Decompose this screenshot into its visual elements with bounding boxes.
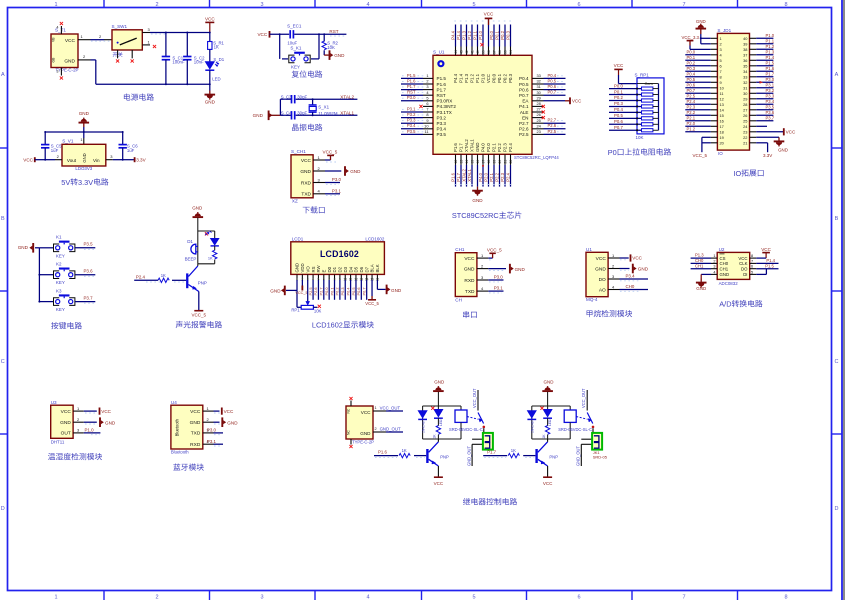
svg-text:LCD1602: LCD1602 bbox=[320, 249, 359, 259]
svg-text:P0.1: P0.1 bbox=[687, 55, 696, 60]
svg-text:CH0: CH0 bbox=[626, 284, 635, 289]
svg-text:VCC: VCC bbox=[301, 158, 312, 164]
svg-text:35: 35 bbox=[743, 63, 747, 68]
svg-text:11: 11 bbox=[424, 129, 428, 134]
svg-text:P3.5: P3.5 bbox=[437, 132, 447, 137]
svg-text:P0.5: P0.5 bbox=[614, 113, 623, 118]
svg-text:29: 29 bbox=[537, 95, 541, 100]
svg-text:VCC: VCC bbox=[738, 256, 747, 261]
svg-text:GND: GND bbox=[205, 100, 216, 105]
svg-text:VCC: VCC bbox=[464, 256, 475, 262]
svg-text:P2.2: P2.2 bbox=[494, 172, 499, 181]
svg-text:CH1: CH1 bbox=[695, 263, 704, 268]
svg-text:P1.6: P1.6 bbox=[407, 78, 416, 83]
svg-text:9: 9 bbox=[720, 80, 722, 85]
svg-text:DI: DI bbox=[743, 272, 747, 277]
svg-text:S_V1: S_V1 bbox=[62, 139, 74, 144]
svg-text:P1.6: P1.6 bbox=[378, 450, 387, 455]
svg-text:P1.1: P1.1 bbox=[472, 30, 477, 39]
svg-text:P2.5: P2.5 bbox=[687, 94, 696, 99]
svg-text:8: 8 bbox=[784, 595, 787, 600]
svg-text:OUT: OUT bbox=[61, 431, 71, 437]
svg-text:P2.3: P2.3 bbox=[687, 105, 696, 110]
svg-text:D1: D1 bbox=[187, 239, 193, 244]
svg-text:7: 7 bbox=[720, 69, 722, 74]
svg-text:VCC_5: VCC_5 bbox=[487, 248, 502, 253]
svg-text:A/D: A/D bbox=[719, 300, 731, 309]
svg-text:P1.0: P1.0 bbox=[766, 33, 775, 38]
svg-text:P0.5: P0.5 bbox=[519, 82, 529, 87]
svg-text:VCC_5: VCC_5 bbox=[295, 291, 307, 295]
svg-text:A: A bbox=[1, 72, 5, 78]
svg-text:10K: 10K bbox=[327, 45, 335, 50]
svg-text:P0.6: P0.6 bbox=[519, 87, 529, 92]
svg-text:P3.1: P3.1 bbox=[494, 286, 504, 291]
svg-text:25: 25 bbox=[743, 118, 747, 123]
svg-text:VCC: VCC bbox=[61, 409, 72, 415]
svg-text:P1.6: P1.6 bbox=[450, 172, 455, 181]
svg-text:GND_OUT: GND_OUT bbox=[380, 427, 401, 432]
svg-text:VCC_3.3: VCC_3.3 bbox=[682, 35, 700, 40]
svg-text:VCC: VCC bbox=[786, 130, 796, 135]
svg-text:GND: GND bbox=[18, 245, 29, 250]
svg-text:D2: D2 bbox=[338, 266, 343, 272]
svg-text:4: 4 bbox=[56, 26, 58, 30]
svg-text:NC: NC bbox=[347, 408, 351, 413]
svg-text:1: 1 bbox=[426, 73, 428, 78]
svg-text:22: 22 bbox=[743, 135, 747, 140]
svg-text:VCC: VCC bbox=[596, 256, 607, 262]
svg-text:P0.2: P0.2 bbox=[503, 73, 508, 82]
svg-text:7: 7 bbox=[751, 259, 753, 263]
svg-text:PNP: PNP bbox=[549, 454, 558, 459]
svg-text:3: 3 bbox=[260, 2, 263, 8]
svg-text:RXD: RXD bbox=[464, 278, 475, 284]
svg-text:18: 18 bbox=[487, 160, 491, 164]
svg-text:6: 6 bbox=[751, 265, 753, 269]
svg-text:19: 19 bbox=[492, 160, 496, 164]
svg-text:RXD: RXD bbox=[190, 442, 201, 448]
svg-text:P3.5: P3.5 bbox=[407, 129, 416, 134]
svg-text:P0.3: P0.3 bbox=[340, 287, 345, 295]
svg-text:PNP: PNP bbox=[198, 281, 207, 286]
svg-text:P0.2: P0.2 bbox=[335, 287, 340, 295]
svg-text:P3.2: P3.2 bbox=[407, 112, 416, 117]
svg-text:S_X1: S_X1 bbox=[318, 104, 329, 109]
svg-text:GND: GND bbox=[595, 266, 606, 272]
svg-text:1: 1 bbox=[713, 254, 715, 258]
svg-text:KEY: KEY bbox=[56, 253, 65, 258]
svg-text:VCC_OUT: VCC_OUT bbox=[581, 388, 586, 408]
svg-text:GND: GND bbox=[696, 19, 706, 24]
svg-text:P2.2: P2.2 bbox=[497, 143, 502, 152]
svg-text:33: 33 bbox=[743, 74, 747, 79]
svg-text:39: 39 bbox=[743, 41, 747, 46]
svg-text:GND: GND bbox=[64, 59, 75, 65]
svg-text:2: 2 bbox=[713, 259, 715, 263]
svg-text:3: 3 bbox=[713, 265, 715, 269]
svg-text:P0.7: P0.7 bbox=[519, 93, 529, 98]
svg-text:P0.4: P0.4 bbox=[519, 76, 529, 81]
svg-text:P3.1: P3.1 bbox=[766, 83, 775, 88]
svg-text:6: 6 bbox=[426, 101, 428, 106]
svg-text:D0: D0 bbox=[327, 266, 332, 272]
svg-text:P1.7: P1.7 bbox=[437, 87, 447, 92]
svg-text:GND: GND bbox=[638, 267, 649, 272]
svg-text:P0.0: P0.0 bbox=[614, 83, 623, 88]
svg-text:GND: GND bbox=[190, 420, 201, 426]
svg-text:20: 20 bbox=[498, 160, 502, 164]
svg-text:VCC: VCC bbox=[632, 256, 642, 261]
svg-text:16: 16 bbox=[720, 118, 724, 123]
svg-text:P4.0: P4.0 bbox=[481, 143, 486, 152]
svg-text:GND: GND bbox=[79, 111, 90, 116]
svg-text:P1.4: P1.4 bbox=[459, 73, 464, 82]
svg-text:P0.3: P0.3 bbox=[508, 73, 513, 82]
svg-text:S_JD1: S_JD1 bbox=[717, 28, 731, 33]
svg-text:VCC: VCC bbox=[190, 409, 201, 415]
svg-text:P0.7: P0.7 bbox=[614, 125, 623, 130]
svg-text:DHT11: DHT11 bbox=[51, 439, 65, 444]
svg-text:25: 25 bbox=[537, 118, 541, 123]
svg-text:P2.4: P2.4 bbox=[136, 275, 146, 280]
svg-text:P0.4: P0.4 bbox=[548, 73, 557, 78]
svg-text:VB: VB bbox=[52, 37, 56, 42]
svg-text:D7: D7 bbox=[364, 266, 369, 272]
svg-text:P1.3: P1.3 bbox=[461, 30, 466, 39]
svg-text:32: 32 bbox=[537, 79, 541, 84]
svg-text:P3.1: P3.1 bbox=[207, 439, 217, 444]
svg-text:P2.1: P2.1 bbox=[687, 116, 696, 121]
svg-text:P0: P0 bbox=[608, 148, 617, 157]
svg-text:S_K1: S_K1 bbox=[290, 45, 302, 50]
svg-text:8: 8 bbox=[426, 112, 428, 117]
svg-text:P0.6: P0.6 bbox=[687, 83, 696, 88]
svg-text:5V: 5V bbox=[61, 178, 70, 187]
svg-text:GND: GND bbox=[270, 289, 281, 294]
svg-text:P1.2: P1.2 bbox=[687, 127, 696, 132]
svg-text:Bluetooth: Bluetooth bbox=[171, 450, 189, 455]
svg-text:P0.6: P0.6 bbox=[356, 287, 361, 295]
svg-text:P2.7: P2.7 bbox=[319, 287, 324, 295]
svg-text:44: 44 bbox=[454, 50, 458, 54]
svg-text:P3.3: P3.3 bbox=[766, 94, 775, 99]
svg-text:5: 5 bbox=[472, 2, 475, 8]
svg-text:1K: 1K bbox=[511, 448, 516, 453]
svg-text:1K: 1K bbox=[208, 256, 213, 261]
svg-text:P1.7: P1.7 bbox=[456, 172, 461, 181]
svg-text:28: 28 bbox=[537, 101, 541, 106]
svg-text:K1: K1 bbox=[56, 235, 62, 240]
svg-text:VCC_5: VCC_5 bbox=[192, 313, 207, 318]
svg-text:GND: GND bbox=[475, 142, 480, 152]
svg-text:B: B bbox=[835, 216, 839, 222]
svg-text:GND: GND bbox=[464, 266, 475, 272]
svg-text:1uF: 1uF bbox=[51, 148, 59, 153]
svg-text:P4.0: P4.0 bbox=[478, 172, 483, 181]
svg-text:P1.7: P1.7 bbox=[766, 72, 775, 77]
svg-text:P2.3: P2.3 bbox=[500, 172, 505, 181]
svg-text:XTAL2: XTAL2 bbox=[340, 94, 354, 99]
svg-text:K3: K3 bbox=[56, 288, 62, 293]
svg-text:2: 2 bbox=[720, 41, 722, 46]
svg-text:STC89C52RC: STC89C52RC bbox=[452, 211, 500, 220]
svg-text:27: 27 bbox=[537, 107, 541, 112]
svg-text:VDD: VDD bbox=[300, 263, 305, 272]
svg-text:D6: D6 bbox=[359, 266, 364, 272]
svg-text:32: 32 bbox=[743, 80, 747, 85]
svg-text:VCC: VCC bbox=[361, 410, 371, 415]
svg-text:P1.1: P1.1 bbox=[475, 73, 480, 82]
svg-text:VCC: VCC bbox=[761, 247, 771, 252]
svg-text:11: 11 bbox=[720, 91, 724, 96]
svg-text:P2.7: P2.7 bbox=[548, 118, 557, 123]
svg-text:P2.0: P2.0 bbox=[483, 172, 488, 181]
svg-text:LCD1: LCD1 bbox=[292, 236, 304, 241]
svg-text:GND: GND bbox=[334, 53, 345, 58]
svg-text:VCC: VCC bbox=[434, 481, 444, 486]
svg-text:3.3V: 3.3V bbox=[78, 178, 93, 187]
svg-text:D1: D1 bbox=[332, 266, 337, 272]
svg-text:7: 7 bbox=[682, 2, 685, 8]
svg-text:P3.2: P3.2 bbox=[766, 88, 775, 93]
svg-text:P1.0: P1.0 bbox=[481, 73, 486, 82]
svg-text:P1.5: P1.5 bbox=[437, 76, 447, 81]
svg-text:3: 3 bbox=[720, 47, 722, 52]
svg-text:S_C3: S_C3 bbox=[281, 94, 292, 99]
svg-text:GND: GND bbox=[472, 198, 483, 203]
svg-text:P0.0: P0.0 bbox=[492, 73, 497, 82]
svg-text:GND: GND bbox=[60, 420, 71, 426]
svg-text:P2.1: P2.1 bbox=[492, 143, 497, 152]
svg-text:18: 18 bbox=[720, 129, 724, 134]
svg-text:LED1: LED1 bbox=[548, 418, 552, 426]
svg-text:P3.6: P3.6 bbox=[766, 110, 775, 115]
svg-text:GND_OUT: GND_OUT bbox=[467, 445, 472, 466]
svg-text:GND: GND bbox=[360, 431, 371, 436]
svg-text:23: 23 bbox=[743, 129, 747, 134]
svg-text:P3.4: P3.4 bbox=[437, 127, 447, 132]
svg-text:P0.4: P0.4 bbox=[614, 107, 623, 112]
svg-text:BLK: BLK bbox=[375, 264, 380, 272]
svg-text:1uF: 1uF bbox=[127, 148, 135, 153]
svg-text:3: 3 bbox=[56, 70, 58, 74]
svg-text:P3.4: P3.4 bbox=[626, 274, 636, 279]
svg-text:P3.0: P3.0 bbox=[766, 77, 775, 82]
svg-text:P2.0: P2.0 bbox=[486, 143, 491, 152]
svg-text:U1: U1 bbox=[586, 247, 592, 252]
svg-text:P2.3: P2.3 bbox=[503, 143, 508, 152]
svg-text:P3.0RX: P3.0RX bbox=[437, 99, 453, 104]
svg-text:SRD-05VDC-SL-C: SRD-05VDC-SL-C bbox=[558, 427, 592, 432]
svg-text:15: 15 bbox=[470, 160, 474, 164]
svg-text:P2.4: P2.4 bbox=[687, 99, 696, 104]
svg-text:10K: 10K bbox=[314, 309, 322, 314]
svg-text:IO: IO bbox=[733, 169, 741, 178]
svg-text:P3.1: P3.1 bbox=[332, 188, 342, 193]
svg-text:P1.3: P1.3 bbox=[464, 73, 469, 82]
svg-text:EA: EA bbox=[522, 99, 529, 104]
svg-text:S_RP1: S_RP1 bbox=[635, 72, 650, 77]
svg-text:P1.3: P1.3 bbox=[695, 253, 704, 258]
svg-text:P4.4: P4.4 bbox=[450, 30, 455, 39]
svg-text:3.3V: 3.3V bbox=[136, 158, 146, 163]
svg-text:RW: RW bbox=[316, 264, 321, 272]
svg-text:P0.3: P0.3 bbox=[687, 66, 696, 71]
svg-text:10K: 10K bbox=[636, 135, 644, 140]
svg-text:40: 40 bbox=[476, 50, 480, 54]
svg-text:MQ-4: MQ-4 bbox=[586, 297, 598, 302]
svg-text:DO: DO bbox=[741, 266, 748, 271]
svg-text:VCC: VCC bbox=[486, 74, 491, 83]
svg-text:GND_OUT: GND_OUT bbox=[576, 445, 581, 466]
svg-text:DO: DO bbox=[599, 277, 606, 283]
svg-text:TXD: TXD bbox=[301, 192, 311, 198]
svg-text:GND: GND bbox=[350, 169, 361, 174]
svg-text:P0.3: P0.3 bbox=[614, 101, 623, 106]
svg-text:VCC: VCC bbox=[614, 63, 624, 68]
svg-text:36: 36 bbox=[743, 58, 747, 63]
svg-text:P1.2: P1.2 bbox=[470, 73, 475, 82]
svg-text:23: 23 bbox=[537, 129, 541, 134]
svg-text:P3.4: P3.4 bbox=[407, 123, 416, 128]
svg-text:S_CH1: S_CH1 bbox=[291, 149, 306, 154]
svg-text:P0.2: P0.2 bbox=[687, 61, 696, 66]
svg-text:43: 43 bbox=[459, 50, 463, 54]
svg-text:7: 7 bbox=[682, 595, 685, 600]
svg-text:Vout: Vout bbox=[67, 158, 77, 163]
svg-text:GND: GND bbox=[82, 153, 87, 162]
svg-text:26: 26 bbox=[743, 113, 747, 118]
svg-text:RP1: RP1 bbox=[291, 307, 300, 312]
svg-text:1N4148: 1N4148 bbox=[422, 421, 426, 433]
svg-text:KEY: KEY bbox=[291, 64, 300, 69]
svg-text:15: 15 bbox=[720, 113, 724, 118]
svg-text:1K: 1K bbox=[542, 434, 546, 439]
svg-text:1K: 1K bbox=[161, 273, 166, 278]
svg-text:P1.7: P1.7 bbox=[407, 84, 416, 89]
svg-text:GND: GND bbox=[295, 263, 300, 273]
svg-text:RST: RST bbox=[407, 90, 416, 95]
svg-text:31: 31 bbox=[743, 85, 747, 90]
svg-text:P0.6: P0.6 bbox=[614, 119, 623, 124]
svg-text:LCD1602: LCD1602 bbox=[312, 321, 343, 330]
svg-text:ADC0832: ADC0832 bbox=[719, 281, 739, 286]
svg-text:IO: IO bbox=[718, 151, 723, 156]
svg-text:BLA: BLA bbox=[370, 264, 375, 272]
svg-text:19: 19 bbox=[720, 135, 724, 140]
svg-text:GND: GND bbox=[391, 288, 402, 293]
svg-text:P2.6: P2.6 bbox=[313, 287, 318, 295]
svg-text:42: 42 bbox=[465, 50, 469, 54]
svg-text:P0.5: P0.5 bbox=[548, 78, 557, 83]
svg-text:P3.0: P3.0 bbox=[494, 275, 504, 280]
svg-text:1: 1 bbox=[54, 2, 57, 8]
svg-text:GND: GND bbox=[434, 380, 445, 385]
svg-text:LCD1602: LCD1602 bbox=[365, 236, 385, 241]
svg-text:TXD: TXD bbox=[191, 431, 201, 437]
svg-text:VCC_5: VCC_5 bbox=[365, 301, 379, 306]
svg-text:B: B bbox=[1, 216, 5, 222]
svg-text:1K: 1K bbox=[433, 434, 437, 439]
svg-text:5: 5 bbox=[472, 595, 475, 600]
svg-text:LED1: LED1 bbox=[439, 418, 443, 426]
svg-text:TYPE-C-2P: TYPE-C-2P bbox=[56, 68, 79, 73]
svg-text:VCC: VCC bbox=[224, 409, 234, 414]
svg-text:P0.2: P0.2 bbox=[614, 95, 623, 100]
svg-text:RS: RS bbox=[311, 266, 316, 272]
svg-text:21: 21 bbox=[503, 160, 507, 164]
svg-text:SRD-05: SRD-05 bbox=[593, 455, 608, 460]
svg-text:16: 16 bbox=[476, 160, 480, 164]
svg-text:8: 8 bbox=[751, 254, 753, 258]
svg-text:17: 17 bbox=[481, 160, 485, 164]
svg-text:VCC: VCC bbox=[257, 32, 267, 37]
svg-text:TXD: TXD bbox=[465, 289, 475, 295]
svg-text:SRD-05VDC-SL-C: SRD-05VDC-SL-C bbox=[449, 427, 483, 432]
svg-text:VCC: VCC bbox=[543, 481, 553, 486]
svg-text:P1.6: P1.6 bbox=[437, 82, 447, 87]
svg-text:17: 17 bbox=[720, 124, 724, 129]
svg-text:PNP: PNP bbox=[440, 454, 449, 459]
svg-text:GND: GND bbox=[720, 272, 730, 277]
svg-text:CLK: CLK bbox=[739, 261, 747, 266]
svg-text:P0.1: P0.1 bbox=[494, 30, 499, 39]
svg-text:P0.0: P0.0 bbox=[489, 30, 494, 39]
svg-text:LED: LED bbox=[212, 77, 220, 82]
svg-text:P3.0: P3.0 bbox=[407, 95, 416, 100]
svg-text:27: 27 bbox=[743, 107, 747, 112]
svg-text:P0.4: P0.4 bbox=[687, 72, 696, 77]
svg-text:1: 1 bbox=[375, 406, 377, 410]
svg-text:P0.2: P0.2 bbox=[500, 30, 505, 39]
svg-text:P0.7: P0.7 bbox=[361, 287, 366, 295]
svg-text:5: 5 bbox=[720, 58, 722, 63]
svg-text:12: 12 bbox=[720, 96, 724, 101]
svg-text:U2: U2 bbox=[719, 247, 725, 252]
svg-text:VCC: VCC bbox=[484, 12, 494, 17]
svg-text:P3.0: P3.0 bbox=[207, 428, 217, 433]
svg-text:S_C4: S_C4 bbox=[281, 110, 292, 115]
svg-text:S_U1: S_U1 bbox=[433, 50, 445, 55]
svg-text:Vin: Vin bbox=[93, 158, 100, 163]
svg-text:9: 9 bbox=[426, 118, 428, 123]
svg-text:10nF: 10nF bbox=[194, 60, 204, 65]
svg-text:LDO3V3: LDO3V3 bbox=[75, 166, 92, 171]
svg-text:VCC_OUT: VCC_OUT bbox=[472, 388, 477, 408]
svg-text:VCC_5: VCC_5 bbox=[323, 149, 338, 154]
svg-text:U3: U3 bbox=[51, 400, 57, 405]
svg-text:P0.1: P0.1 bbox=[329, 287, 334, 295]
svg-text:P4.1: P4.1 bbox=[519, 104, 529, 109]
svg-text:VCC_OUT: VCC_OUT bbox=[380, 406, 401, 411]
svg-text:38: 38 bbox=[743, 47, 747, 52]
svg-text:26: 26 bbox=[537, 112, 541, 117]
svg-text:37: 37 bbox=[492, 50, 496, 54]
svg-text:STC89C52RC_LQFP44: STC89C52RC_LQFP44 bbox=[514, 155, 559, 160]
svg-text:CH1: CH1 bbox=[720, 266, 729, 271]
svg-text:D4: D4 bbox=[348, 266, 353, 272]
svg-text:6: 6 bbox=[577, 2, 580, 8]
svg-text:P0.3: P0.3 bbox=[505, 30, 510, 39]
svg-text:38: 38 bbox=[487, 50, 491, 54]
svg-text:P1.3: P1.3 bbox=[766, 50, 775, 55]
svg-text:P3.1: P3.1 bbox=[407, 106, 416, 111]
svg-text:21: 21 bbox=[743, 140, 747, 145]
svg-text:U4: U4 bbox=[171, 400, 177, 405]
svg-text:D: D bbox=[835, 506, 839, 512]
svg-text:P3.6: P3.6 bbox=[84, 269, 94, 274]
